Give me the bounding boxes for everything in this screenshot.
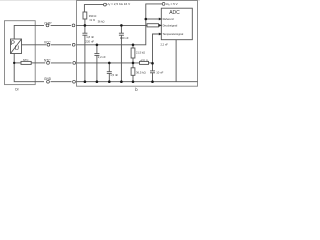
svg-text:NTC: NTC [23, 58, 29, 62]
svg-text:1,8 nF: 1,8 nF [86, 35, 94, 39]
svg-text:21,5 kΩ: 21,5 kΩ [136, 51, 145, 55]
svg-text:UV = 2,5 bis 16 V: UV = 2,5 bis 16 V [107, 2, 132, 7]
svg-text:ADC: ADC [169, 10, 180, 16]
svg-text:2,2 nF: 2,2 nF [161, 43, 169, 47]
svg-text:±1 %: ±1 % [89, 19, 95, 22]
svg-text:NTC: NTC [44, 58, 51, 62]
svg-text:Referenz: Referenz [163, 17, 175, 21]
svg-text:GND: GND [44, 77, 52, 81]
svg-text:100 nF: 100 nF [120, 36, 129, 40]
svg-text:470 Ω: 470 Ω [140, 59, 148, 63]
svg-text:Drucksignal: Drucksignal [163, 23, 178, 27]
svg-text:Temperatursignal: Temperatursignal [163, 32, 184, 36]
svg-text:390 Ω: 390 Ω [89, 14, 97, 18]
svg-text:OutP: OutP [44, 21, 51, 25]
svg-text:10 nF: 10 nF [156, 71, 163, 75]
svg-text:VCC: VCC [44, 41, 51, 45]
svg-text:36 kΩ: 36 kΩ [98, 20, 105, 24]
svg-text:UA = 5 V: UA = 5 V [166, 2, 179, 7]
svg-text:2,2 nF: 2,2 nF [98, 55, 106, 59]
svg-text:220 nF: 220 nF [85, 40, 94, 44]
svg-text:U: U [15, 46, 19, 52]
svg-text:36,5 kΩ: 36,5 kΩ [136, 70, 146, 74]
svg-text:1,5 nF: 1,5 nF [110, 73, 118, 77]
